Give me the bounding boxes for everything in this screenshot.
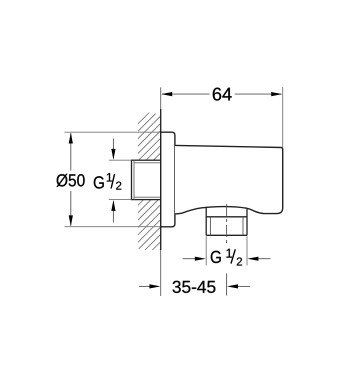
wall face line (also extension line for 64 and 35-45 dims)	[160, 87, 162, 296]
label G1/2 left	[94, 173, 122, 189]
wall hatching	[0, 109, 301, 250]
dim 35-45 arrows	[139, 285, 152, 287]
escutcheon flange	[161, 132, 175, 227]
label G1/2 bottom	[211, 249, 242, 266]
dim G1/2 bottom extension lines	[205, 236, 207, 265]
label Ø50	[57, 174, 85, 187]
label 35-45	[173, 281, 216, 293]
outlet nipple G1/2	[206, 208, 247, 236]
dim 64 dimension line	[162, 93, 210, 95]
label 64	[213, 88, 232, 101]
dim G1/2 left arrows	[112, 139, 114, 152]
concealed pipe stub G1/2 inlet	[132, 160, 161, 199]
body (horn outline)	[175, 145, 283, 214]
dim G1/2 bottom arrows	[183, 258, 196, 260]
outlet centerline (dashed)	[226, 204, 228, 246]
dim Ø50 dimension line	[70, 133, 72, 170]
dim 64 extension line right	[282, 87, 284, 147]
dim G1/2 left extension lines	[109, 159, 132, 161]
dim 64 arrowheads	[161, 92, 172, 96]
dim Ø50 arrowheads	[69, 133, 73, 144]
dim Ø50 extension lines	[65, 131, 161, 133]
